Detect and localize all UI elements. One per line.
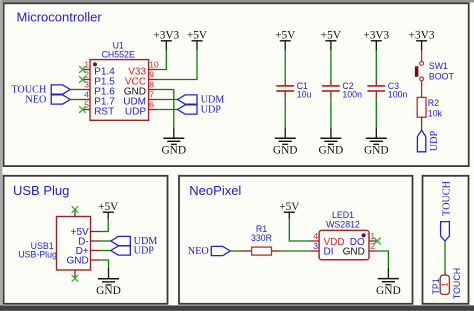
svg-text:8: 8 <box>149 79 154 89</box>
svg-text:330R: 330R <box>251 233 272 243</box>
svg-text:GND: GND <box>364 145 389 157</box>
svg-text:1: 1 <box>370 231 375 241</box>
svg-text:7: 7 <box>149 89 154 99</box>
svg-text:NEO: NEO <box>188 246 209 257</box>
svg-text:UDP: UDP <box>134 245 155 256</box>
svg-text:+3V3: +3V3 <box>153 29 179 41</box>
svg-text:DI: DI <box>324 247 334 258</box>
svg-text:100n: 100n <box>342 90 362 100</box>
svg-text:UDP: UDP <box>201 104 222 115</box>
svg-text:TP1: TP1 <box>431 278 441 294</box>
svg-text:6: 6 <box>149 99 154 109</box>
svg-text:+5V: +5V <box>98 201 119 213</box>
svg-text:GND: GND <box>96 285 121 297</box>
svg-text:GND: GND <box>319 145 344 157</box>
svg-text:3: 3 <box>313 241 318 251</box>
svg-text:GND: GND <box>273 145 298 157</box>
svg-text:10: 10 <box>149 59 159 69</box>
svg-text:+3V3: +3V3 <box>363 29 389 41</box>
svg-text:GND: GND <box>161 145 186 157</box>
svg-text:+5V: +5V <box>321 29 342 41</box>
svg-text:10u: 10u <box>297 90 312 100</box>
svg-text:USB-Plug: USB-Plug <box>18 249 57 259</box>
svg-text:1: 1 <box>84 59 89 69</box>
svg-text:2: 2 <box>370 241 375 251</box>
svg-text:TOUCH: TOUCH <box>441 180 452 216</box>
svg-text:GND: GND <box>66 256 88 267</box>
svg-text:10k: 10k <box>428 108 443 118</box>
svg-text:UDP: UDP <box>429 130 440 151</box>
svg-text:+5V: +5V <box>275 29 296 41</box>
svg-text:NeoPixel: NeoPixel <box>189 183 241 198</box>
svg-text:+5V: +5V <box>279 201 300 213</box>
svg-text:GND: GND <box>343 247 365 258</box>
svg-text:Microcontroller: Microcontroller <box>17 9 103 24</box>
svg-text:+3V3: +3V3 <box>409 29 435 41</box>
svg-text:4: 4 <box>84 89 89 99</box>
svg-text:USB Plug: USB Plug <box>13 183 69 198</box>
svg-text:WS2812: WS2812 <box>326 220 360 230</box>
svg-text:CH552E: CH552E <box>102 49 135 59</box>
svg-text:NEO: NEO <box>25 94 46 105</box>
svg-text:2: 2 <box>84 69 89 79</box>
svg-text:BOOT: BOOT <box>429 72 455 82</box>
svg-text:GND: GND <box>376 285 401 297</box>
svg-text:R2: R2 <box>428 98 439 108</box>
svg-text:3: 3 <box>84 79 89 89</box>
svg-text:RST: RST <box>94 107 114 118</box>
svg-text:SW1: SW1 <box>429 61 448 71</box>
svg-text:+5V: +5V <box>187 29 208 41</box>
svg-text:4: 4 <box>313 231 318 241</box>
svg-text:1: 1 <box>440 282 450 287</box>
svg-text:100n: 100n <box>388 90 408 100</box>
svg-text:TOUCH: TOUCH <box>452 268 462 299</box>
svg-text:UDP: UDP <box>125 107 146 118</box>
svg-text:9: 9 <box>149 69 154 79</box>
svg-text:5: 5 <box>84 99 89 109</box>
